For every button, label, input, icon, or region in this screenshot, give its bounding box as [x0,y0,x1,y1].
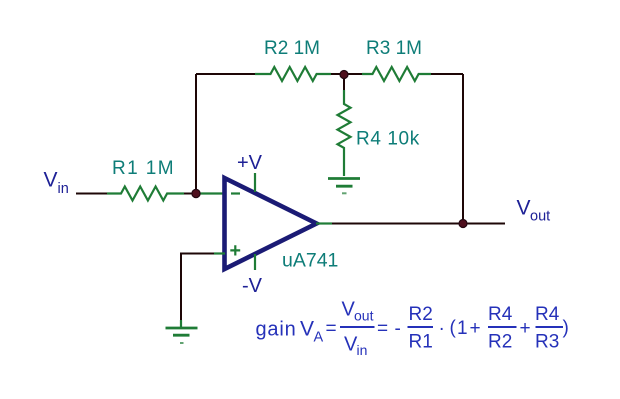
svg-text:uA741: uA741 [282,250,338,272]
svg-text:+: + [520,318,531,339]
wire input Vin to R1 [76,193,107,195]
svg-text:in: in [58,181,69,197]
node C junction dot [459,220,467,228]
svg-text:R2 1M: R2 1M [264,38,320,59]
svg-text:(: ( [450,318,457,339]
wire R1 right lead to node A [184,193,199,195]
svg-text:=: = [326,319,337,340]
svg-text:R2: R2 [409,304,433,325]
formula fraction bar 1 [340,326,375,328]
svg-text:+: + [470,318,481,339]
svg-text:R2: R2 [488,332,512,353]
op-amp +V power pin [254,173,256,192]
svg-text:): ) [563,318,569,339]
svg-text:R4: R4 [488,304,513,325]
op-amp non-inverting plus symbol [230,245,240,255]
wire right vertical to output [462,74,464,224]
svg-text:R4 10k: R4 10k [356,129,420,150]
wire top feedback right segment [431,73,463,75]
svg-text:R4: R4 [535,304,560,325]
formula fraction bar 3 [488,326,517,328]
wire output green stub [316,222,332,224]
op-amp inverting minus symbol [231,192,240,194]
svg-text:=: = [377,319,388,340]
node A junction dot [192,189,200,197]
svg-text:out: out [354,308,374,324]
wire top feedback left segment [196,73,255,75]
svg-text:1: 1 [457,318,468,339]
resistor R2 [255,67,331,81]
resistor R4 [338,90,351,176]
svg-text:R3 1M: R3 1M [366,38,422,59]
svg-text:R1: R1 [409,332,433,353]
svg-text:V: V [517,197,531,220]
resistor R3 [362,67,431,81]
svg-text:in: in [357,342,368,358]
wire left vertical feedback [195,74,197,194]
svg-text:R1 1M: R1 1M [112,158,175,179]
svg-text:V: V [44,169,58,192]
formula fraction bar 2 [408,326,434,328]
ground for R4 [328,179,360,194]
ground for non-inverting input [166,328,198,343]
wire R2 to node B [331,73,362,75]
resistor R1 [107,187,184,201]
wire non-inverting down to ground [180,253,182,321]
svg-text:out: out [530,209,550,225]
svg-text:·: · [439,319,445,340]
op-amp -V power pin [254,254,256,270]
svg-text:-V: -V [242,275,263,297]
wire non-inverting input horizontal [181,253,214,255]
svg-text:A: A [314,330,324,346]
svg-text:-: - [395,319,401,340]
formula fraction bar 4 [536,326,564,328]
node B junction dot [340,71,348,79]
op-amp U1 uA741 triangle [225,178,317,269]
wire non-inverting green stub [214,252,225,254]
wire output to Vout [332,223,505,225]
svg-text:R3: R3 [535,332,559,353]
wire node A to op-amp inverting input [199,192,225,194]
svg-text:gain: gain [256,319,297,341]
wire node B stub down [343,77,345,90]
svg-text:+V: +V [237,152,263,174]
wire green stub above ground [180,320,182,328]
svg-text:V: V [300,318,314,341]
